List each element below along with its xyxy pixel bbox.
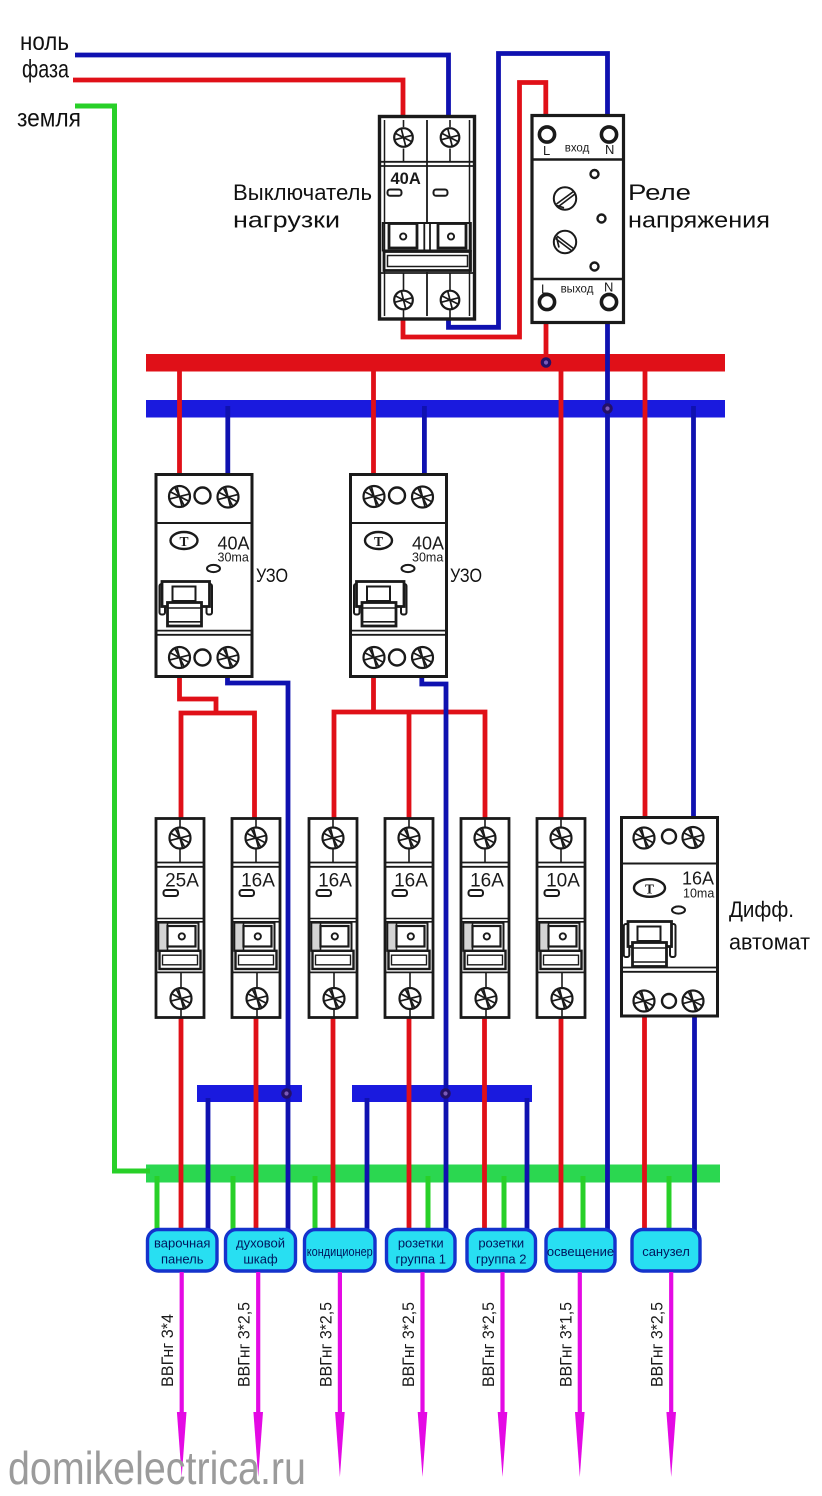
svg-text:L: L xyxy=(543,143,550,158)
svg-text:нагрузки: нагрузки xyxy=(233,208,340,233)
svg-text:варочная: варочная xyxy=(154,1236,210,1251)
svg-text:шкаф: шкаф xyxy=(243,1252,278,1267)
svg-text:ВВГнг 3*2,5: ВВГнг 3*2,5 xyxy=(480,1302,498,1387)
wire: УЗО1 L out jog to distribution tee xyxy=(180,674,217,713)
wire: breaker out to духовой шкаф xyxy=(254,1016,259,1233)
svg-text:санузел: санузел xyxy=(642,1244,690,1259)
wire: red bus to breaker 10A xyxy=(559,364,564,820)
wire: PE bus stub xyxy=(155,1176,160,1233)
breaker 16A духовой шкаф QF2 xyxy=(232,819,280,1018)
svg-text:10ma: 10ma xyxy=(683,887,714,901)
wire: breaker out to розетки группа 1 xyxy=(407,1016,412,1233)
wire: PE bus stub xyxy=(426,1176,431,1233)
svg-text:16A: 16A xyxy=(241,871,275,892)
wire: load switch L out to relay L in xyxy=(403,83,546,338)
load box: розетки группа 1 xyxy=(387,1230,456,1272)
cable ВВГнг 3*2,5 arrow xyxy=(480,1272,507,1477)
wire: relay L out to red bus xyxy=(544,320,549,362)
svg-text:Реле: Реле xyxy=(628,180,691,205)
svg-text:ноль: ноль xyxy=(20,28,69,56)
wire: relay N out long drop to blue bus and освещение box xyxy=(605,320,610,1233)
diff automat 16A 10ma (Дифф. автомат) xyxy=(622,818,718,1017)
wire: red bus to diff automat L xyxy=(643,364,648,820)
wire: УЗО1 N out to mini bus N1 and down to духовой шкаф xyxy=(228,674,289,1233)
breaker 10A освещение QF6 xyxy=(537,819,585,1018)
wire: PE bus stub xyxy=(231,1176,236,1233)
svg-text:10A: 10A xyxy=(546,871,580,892)
svg-text:вход: вход xyxy=(565,143,590,155)
svg-text:розетки: розетки xyxy=(478,1236,524,1251)
svg-text:25A: 25A xyxy=(165,871,199,892)
svg-text:группа 2: группа 2 xyxy=(476,1252,526,1267)
wire: ноль neutral feed line xyxy=(75,55,449,120)
wire: red bus to УЗО1 xyxy=(177,360,182,477)
cable ВВГнг 3*4 arrow xyxy=(159,1272,186,1477)
svg-text:выход: выход xyxy=(561,284,594,296)
svg-text:16A: 16A xyxy=(470,871,504,892)
green earth (PE) bus bar xyxy=(146,1165,720,1183)
breaker 16A розетки группа 2 QF5 xyxy=(461,819,509,1018)
wire: УЗО2 phase tee to breakers 16A x3 xyxy=(334,712,485,820)
cable ВВГнг 3*2,5 arrow xyxy=(317,1272,344,1477)
svg-text:16A: 16A xyxy=(682,869,714,889)
svg-text:30ma: 30ma xyxy=(218,551,249,565)
cable ВВГнг 3*1,5 arrow xyxy=(557,1272,584,1477)
node: N2 mini bus junction xyxy=(441,1089,451,1099)
wire: blue bus to diff automat N xyxy=(691,406,696,820)
node: relay L to red bus junction xyxy=(541,358,551,368)
load box: освещение xyxy=(546,1230,615,1272)
svg-text:ВВГнг 3*2,5: ВВГнг 3*2,5 xyxy=(236,1302,254,1387)
wire: diff automat N out to санузел xyxy=(692,1014,697,1233)
load box: варочная панель xyxy=(148,1230,218,1272)
svg-text:ВВГнг 3*1,5: ВВГнг 3*1,5 xyxy=(557,1302,575,1387)
svg-text:фаза: фаза xyxy=(22,56,69,84)
wire: N1 bus to варочная панель xyxy=(206,1098,211,1233)
wire: blue bus to УЗО1 xyxy=(225,406,230,477)
cable ВВГнг 3*2,5 arrow xyxy=(236,1272,263,1477)
wire: breaker out to розетки группа 2 xyxy=(482,1016,487,1233)
red phase bus bar xyxy=(146,354,725,372)
svg-text:T: T xyxy=(179,534,188,549)
svg-text:N: N xyxy=(604,280,613,295)
wire: УЗО2 N out to mini bus N2 and down to розетки группа 1 xyxy=(422,674,446,1233)
wire: breaker out to варочная панель xyxy=(179,1016,184,1233)
svg-text:T: T xyxy=(374,534,383,549)
wire: PE bus stub xyxy=(502,1176,507,1233)
load box: розетки группа 2 xyxy=(467,1230,536,1272)
svg-text:кондиционер: кондиционер xyxy=(307,1244,373,1259)
svg-text:ВВГнг 3*2,5: ВВГнг 3*2,5 xyxy=(400,1302,418,1387)
svg-text:ВВГнг 3*2,5: ВВГнг 3*2,5 xyxy=(649,1302,667,1387)
node: relay N to blue bus junction xyxy=(603,404,613,414)
blue neutral bus bar xyxy=(146,400,725,418)
neutral mini bus bar N1 xyxy=(197,1085,302,1102)
svg-text:16A: 16A xyxy=(318,871,352,892)
svg-text:40A: 40A xyxy=(391,170,421,188)
svg-text:земля: земля xyxy=(17,105,81,133)
wire: УЗО1 phase tee to breakers 25A and 16A xyxy=(181,713,255,820)
svg-text:L: L xyxy=(541,282,548,297)
wire: load switch N out to relay N in xyxy=(449,54,608,328)
svg-text:УЗО: УЗО xyxy=(256,566,288,587)
wire: фаза phase feed line xyxy=(73,80,403,120)
load switch QS1 (Выключатель нагрузки) 2-pole xyxy=(380,117,475,320)
svg-text:ВВГнг 3*4: ВВГнг 3*4 xyxy=(159,1314,177,1387)
svg-text:освещение: освещение xyxy=(547,1244,614,1259)
svg-text:16A: 16A xyxy=(394,871,428,892)
wire: breaker out to освещение xyxy=(559,1016,564,1233)
svg-text:УЗО: УЗО xyxy=(450,566,482,587)
svg-text:N: N xyxy=(605,142,614,157)
svg-text:розетки: розетки xyxy=(398,1236,444,1251)
wire: red bus to УЗО2 xyxy=(371,360,376,477)
breaker 16A розетки группа 1 QF4 xyxy=(385,819,433,1018)
svg-text:группа 1: группа 1 xyxy=(396,1252,446,1267)
wire: PE bus stub xyxy=(313,1176,318,1233)
svg-text:духовой: духовой xyxy=(236,1236,285,1251)
voltage relay KV1 (Реле напряжения) xyxy=(532,116,624,323)
wire: breaker out to кондиционер xyxy=(331,1016,336,1233)
neutral mini bus bar N2 xyxy=(352,1085,532,1102)
wire: diff automat L out to санузел xyxy=(642,1014,647,1233)
svg-text:30ma: 30ma xyxy=(412,551,443,565)
breaker 25A варочная панель QF1 xyxy=(156,819,204,1018)
wire: N2 bus to кондиционер xyxy=(365,1098,370,1233)
wire: земля earth line down to PE bus xyxy=(75,106,150,1171)
wire: blue bus to УЗО2 xyxy=(422,406,427,477)
breaker 16A кондиционер QF3 xyxy=(309,819,357,1018)
svg-text:Выключатель: Выключатель xyxy=(233,180,372,205)
wire: N2 bus to розетки группа 2 xyxy=(525,1098,530,1233)
svg-text:напряжения: напряжения xyxy=(628,208,770,233)
wire: УЗО2 L out down to tee xyxy=(371,674,376,712)
load box: духовой шкаф xyxy=(226,1230,296,1272)
node: N1 mini bus junction xyxy=(282,1089,292,1099)
svg-text:ВВГнг 3*2,5: ВВГнг 3*2,5 xyxy=(317,1302,335,1387)
cable ВВГнг 3*2,5 arrow xyxy=(400,1272,427,1477)
load box: кондиционер xyxy=(305,1230,376,1272)
RCD УЗО1 40A 30ma xyxy=(156,475,252,677)
svg-text:автомат: автомат xyxy=(729,930,810,955)
wire: PE bus stub xyxy=(581,1176,586,1233)
svg-text:панель: панель xyxy=(161,1252,204,1267)
wire: PE bus stub xyxy=(667,1176,672,1233)
svg-text:domikelectrica.ru: domikelectrica.ru xyxy=(8,1442,306,1494)
load box: санузел xyxy=(632,1230,700,1272)
cable ВВГнг 3*2,5 arrow xyxy=(649,1272,676,1477)
svg-text:T: T xyxy=(645,882,654,897)
RCD УЗО2 40A 30ma xyxy=(351,475,447,677)
svg-text:Дифф.: Дифф. xyxy=(729,897,794,922)
